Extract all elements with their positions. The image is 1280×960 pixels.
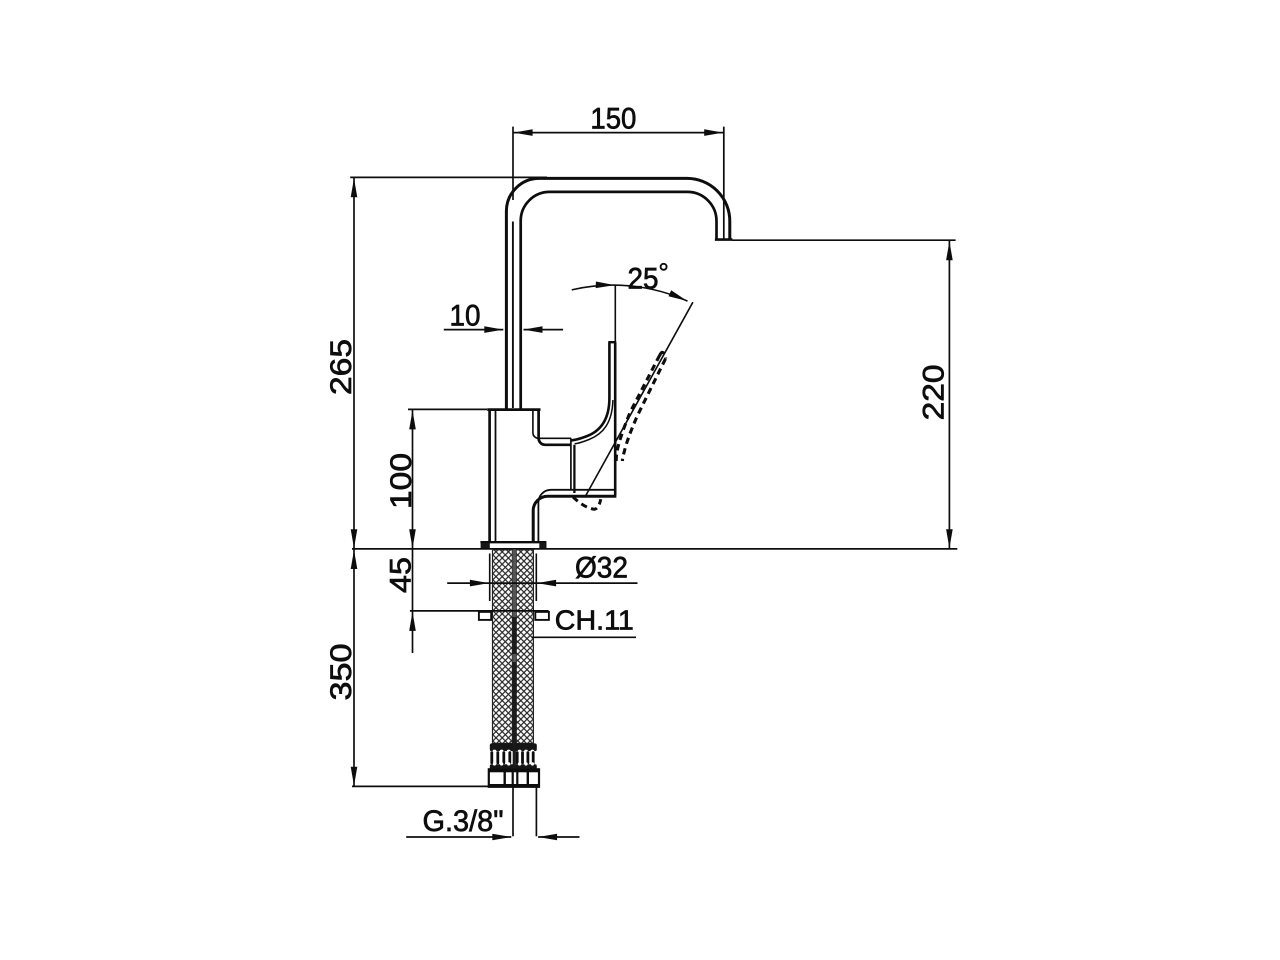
dim 265 line <box>353 178 355 549</box>
base plate right end cap <box>539 543 546 548</box>
joint vertical thin <box>570 438 572 490</box>
dim 45 bottom arrow with tail <box>412 611 414 653</box>
connection nuts <box>489 769 539 787</box>
body top line <box>487 408 540 411</box>
shelf top thin line + left curve into lower body inner vertical <box>538 490 616 542</box>
CH.11 leader line <box>532 636 637 638</box>
handle lever left edge with base curve <box>571 343 609 441</box>
dim O32 line <box>447 582 637 584</box>
right hose end fitting <box>515 743 537 751</box>
body left inner line <box>495 411 497 542</box>
mounting bracket line <box>410 610 549 612</box>
spout inner profile <box>521 192 717 410</box>
dim 150 extension line right <box>723 127 725 240</box>
angle 25 deg arc <box>572 285 688 301</box>
G3/8 pipe left edge <box>512 787 514 837</box>
handle lever top cap <box>608 341 616 343</box>
dim O32 left extension line <box>489 554 491 602</box>
threaded shank left hatched column <box>493 550 513 744</box>
dashed lever in 25 deg position <box>616 352 665 463</box>
angle 25 deg vertical extension line <box>614 285 616 342</box>
G3/8 pipe right edge <box>535 787 537 837</box>
handle lever inner base curve <box>575 400 613 444</box>
angle 25 deg tilted line <box>585 302 693 497</box>
degree symbol <box>661 264 667 270</box>
left hose end fitting <box>490 743 514 751</box>
angle arrow at vertical line <box>596 282 615 289</box>
dim 10 left shaft <box>444 329 504 331</box>
svg-text:100: 100 <box>385 453 418 509</box>
dim 45 line <box>412 549 414 611</box>
body right outer edge + valley bottom line <box>539 410 572 445</box>
dim 220 line <box>948 241 950 549</box>
svg-text:350: 350 <box>325 644 358 701</box>
dim 350 line <box>353 549 355 786</box>
shelf bottom thick line + left curve into lower body outer vertical <box>533 496 616 542</box>
dim 350 bottom extension line <box>352 785 490 787</box>
svg-text:265: 265 <box>325 339 358 395</box>
svg-text:150: 150 <box>590 102 636 135</box>
center hose dark stripe <box>512 550 516 766</box>
spout outlet bottom cap <box>715 238 733 241</box>
base plate left end cap <box>481 543 490 548</box>
dim 100 line <box>412 410 414 549</box>
dim O32 right extension line <box>535 554 537 602</box>
bracket left tab <box>479 612 491 620</box>
dim G3/8 right shaft <box>538 836 579 838</box>
dim 220 top extension line <box>732 239 956 241</box>
svg-text:10: 10 <box>450 300 481 333</box>
spout middle highlight line <box>512 222 514 409</box>
dim G3/8 left shaft <box>406 836 511 838</box>
svg-text:25: 25 <box>628 263 659 296</box>
dim 100 top extension line <box>408 408 487 410</box>
dim 265 top extension line <box>350 176 547 178</box>
svg-text:220: 220 <box>918 364 951 420</box>
dashed swing arc under shelf <box>573 497 601 509</box>
svg-text:G.3/8": G.3/8" <box>423 805 504 838</box>
base plate top line <box>480 541 546 543</box>
dim 150 line <box>513 132 724 134</box>
svg-text:45: 45 <box>384 557 417 593</box>
dim 150 extension line left <box>512 127 514 200</box>
body right inner line + valley top line <box>533 411 571 438</box>
svg-text:Ø32: Ø32 <box>575 551 628 584</box>
bracket right tab <box>535 612 549 620</box>
body left outer edge <box>488 410 491 542</box>
joint vertical thick <box>573 445 575 493</box>
deck / mounting surface line <box>352 548 957 550</box>
dim 10 right shaft <box>524 329 564 331</box>
svg-text:CH.11: CH.11 <box>555 605 634 636</box>
angle arrow at tilted line <box>669 290 688 301</box>
spout outer profile <box>506 178 729 410</box>
handle lever right edge <box>614 343 617 496</box>
threaded shank right hatched column <box>516 550 533 744</box>
